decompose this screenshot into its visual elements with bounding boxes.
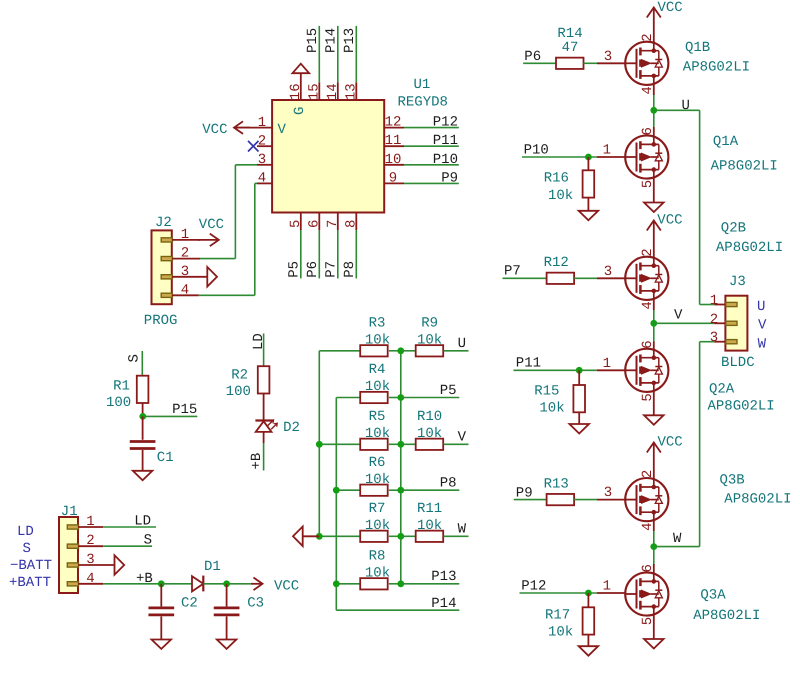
Q3B pin 4 (source) xyxy=(653,521,655,531)
Q1A gate pin 1 xyxy=(597,156,626,158)
svg-text:V: V xyxy=(674,308,683,324)
resistor R17 xyxy=(587,593,589,607)
svg-text:C1: C1 xyxy=(157,450,174,466)
svg-text:P7: P7 xyxy=(323,261,339,278)
svg-text:10k: 10k xyxy=(365,518,390,534)
resistor R16 xyxy=(587,157,589,170)
svg-text:J1: J1 xyxy=(61,504,78,520)
wire bus to R10 xyxy=(401,443,416,445)
resistor R6 xyxy=(360,485,388,496)
svg-text:11: 11 xyxy=(385,133,402,149)
svg-text:6: 6 xyxy=(640,564,656,572)
svg-text:C2: C2 xyxy=(181,596,198,612)
svg-text:U: U xyxy=(682,98,690,114)
wire bus to R9 xyxy=(401,350,416,352)
wire net S xyxy=(103,545,152,547)
ground below Q1A xyxy=(653,190,655,203)
J2 pin pad 4 xyxy=(161,293,172,297)
U1 pin 13 xyxy=(355,82,357,100)
junction right-bus row R3 xyxy=(397,347,404,354)
wire D1 to VCC xyxy=(203,583,251,585)
svg-text:10k: 10k xyxy=(417,426,442,442)
svg-text:P14: P14 xyxy=(431,596,456,612)
VCC power symbol above Q1B xyxy=(653,8,655,43)
Q3A pin 5 (source) xyxy=(653,615,655,627)
svg-text:P15: P15 xyxy=(305,28,321,53)
svg-text:6: 6 xyxy=(306,220,322,228)
wire net P8 xyxy=(401,489,460,491)
svg-text:Q3B: Q3B xyxy=(720,473,745,489)
svg-text:AP8G02LI: AP8G02LI xyxy=(683,60,750,76)
wire LD to R2 xyxy=(263,334,265,367)
J2 pin 3 lead xyxy=(172,276,208,278)
transistor Q1A xyxy=(625,135,668,178)
svg-text:Q1A: Q1A xyxy=(713,134,739,150)
junction node gate Q3A xyxy=(585,590,592,597)
svg-text:V: V xyxy=(758,318,767,334)
resistor R5 xyxy=(360,439,388,450)
wire R13 to Q3B gate xyxy=(574,499,597,501)
svg-text:U: U xyxy=(458,336,466,352)
wire to +B xyxy=(263,443,265,471)
svg-text:R3: R3 xyxy=(369,316,386,332)
connector J2 body xyxy=(152,230,172,304)
wire net LD xyxy=(103,526,156,528)
J3 pin 1 lead xyxy=(714,304,725,306)
svg-text:10k: 10k xyxy=(539,400,564,416)
svg-text:5: 5 xyxy=(288,220,304,228)
resistor R14 xyxy=(556,58,584,69)
wire net P15 xyxy=(318,26,320,82)
svg-text:2: 2 xyxy=(640,33,656,41)
Q1B pin 4 (source) xyxy=(653,85,655,95)
ground symbol at J2 pin 3 (pointing right) xyxy=(207,267,217,287)
svg-text:1: 1 xyxy=(258,115,266,131)
wire P6 to R14 xyxy=(523,62,556,64)
J1 pin pad 1 xyxy=(67,525,78,529)
wire R8 to bus xyxy=(389,583,401,585)
resistor R8 xyxy=(360,578,388,589)
svg-text:2: 2 xyxy=(640,248,656,256)
svg-text:10k: 10k xyxy=(365,379,390,395)
svg-text:15: 15 xyxy=(306,83,322,100)
svg-text:S: S xyxy=(144,533,152,549)
svg-text:R6: R6 xyxy=(369,455,386,471)
svg-text:P11: P11 xyxy=(516,356,541,372)
wire net P9 xyxy=(404,182,459,184)
svg-text:P13: P13 xyxy=(342,28,358,53)
svg-text:P8: P8 xyxy=(342,261,358,278)
svg-text:1: 1 xyxy=(710,293,718,309)
svg-text:10k: 10k xyxy=(548,625,573,641)
svg-text:R15: R15 xyxy=(534,383,559,399)
svg-text:VCC: VCC xyxy=(199,217,224,233)
junction right-bus row R6 xyxy=(397,487,404,494)
wire J3 pin1 from U bus xyxy=(700,304,715,306)
svg-text:PROG: PROG xyxy=(144,313,178,329)
VCC power symbol at U1 pin 1 xyxy=(234,127,250,129)
svg-text:10k: 10k xyxy=(548,188,573,204)
svg-text:J3: J3 xyxy=(729,274,746,290)
svg-text:+B: +B xyxy=(249,453,265,470)
Q2A pin 6 (drain) xyxy=(653,342,655,350)
svg-text:P12: P12 xyxy=(521,579,546,595)
J1 pin 3 lead xyxy=(78,564,115,566)
U1 pin 15 xyxy=(318,82,320,100)
svg-text:R4: R4 xyxy=(369,362,386,378)
Q2B gate pin 3 xyxy=(597,277,626,279)
svg-text:D1: D1 xyxy=(204,559,221,575)
U1 pin 6 xyxy=(318,213,320,231)
svg-text:P14: P14 xyxy=(323,28,339,53)
svg-text:10k: 10k xyxy=(365,472,390,488)
svg-text:+B: +B xyxy=(136,571,153,587)
svg-text:3: 3 xyxy=(604,264,612,280)
resistor R11 xyxy=(416,531,444,542)
wire net V xyxy=(444,443,469,445)
ground symbol at J1 pin 3 (pointing right) xyxy=(115,555,125,575)
ground symbol at ladder (pointing left) xyxy=(303,535,320,537)
ground below Q3A xyxy=(653,627,655,639)
wire R7 to bus xyxy=(389,535,401,537)
J2 pin pad 2 xyxy=(161,257,172,261)
svg-text:VCC: VCC xyxy=(274,579,299,595)
U1 pin 2 xyxy=(257,145,272,147)
svg-text:R1: R1 xyxy=(113,379,130,395)
svg-text:P6: P6 xyxy=(524,49,541,65)
svg-text:P5: P5 xyxy=(440,383,457,399)
R1 lead to junction xyxy=(142,403,144,416)
svg-text:14: 14 xyxy=(325,83,341,100)
Q3B gate pin 3 xyxy=(597,499,626,501)
wire net P5 xyxy=(300,230,302,278)
svg-text:10k: 10k xyxy=(365,566,390,582)
wire P7 to R12 xyxy=(503,277,547,279)
svg-text:13: 13 xyxy=(343,83,359,100)
ground below R16 xyxy=(587,198,589,211)
svg-text:AP8G02LI: AP8G02LI xyxy=(693,608,760,624)
wire R5 to bus xyxy=(389,443,401,445)
wire bus GND-left (R3/R5/R7) xyxy=(318,351,320,537)
U1 pin 4 xyxy=(257,182,272,184)
junction right-bus row R4 xyxy=(397,394,404,401)
svg-text:1: 1 xyxy=(603,579,611,595)
svg-text:VCC: VCC xyxy=(658,435,683,451)
resistor R3 xyxy=(360,345,388,356)
J2 pin 4 lead xyxy=(172,294,199,296)
svg-text:C3: C3 xyxy=(247,596,264,612)
svg-text:R2: R2 xyxy=(231,368,248,384)
connector J1 body xyxy=(59,517,78,593)
svg-text:2: 2 xyxy=(640,470,656,478)
U1 pin 14 xyxy=(337,82,339,100)
J3 pin pad 2 xyxy=(726,321,737,325)
Q1B gate pin 3 xyxy=(597,62,626,64)
svg-text:5: 5 xyxy=(640,393,656,401)
wire J2 pin4 to U1 pin4 xyxy=(199,294,255,296)
Q2A pin 5 (source) xyxy=(653,392,655,403)
D2 lead down xyxy=(263,432,265,443)
svg-text:1: 1 xyxy=(603,143,611,159)
wire P11 to Q2A gate xyxy=(514,369,597,371)
svg-text:3: 3 xyxy=(258,152,266,168)
wire Q1B source to U node xyxy=(653,95,655,127)
junction node W xyxy=(650,543,657,550)
svg-text:P5: P5 xyxy=(286,261,302,278)
ground below C2 xyxy=(160,616,162,639)
U1 pin 11 xyxy=(384,145,404,147)
wire bus P14 (R4/R6/R8) xyxy=(335,398,337,611)
junction node U xyxy=(650,107,657,114)
svg-text:R5: R5 xyxy=(369,409,386,425)
svg-text:10: 10 xyxy=(385,152,402,168)
resistor R4 xyxy=(360,392,388,403)
wire bus to R11 xyxy=(401,535,416,537)
svg-text:VCC: VCC xyxy=(657,212,682,228)
svg-text:6: 6 xyxy=(640,340,656,348)
svg-text:P12: P12 xyxy=(433,115,458,131)
svg-text:7: 7 xyxy=(325,220,341,228)
resistor R12 xyxy=(547,273,575,284)
transistor Q1B xyxy=(625,42,668,85)
ground below C1 xyxy=(142,450,144,471)
wire Q2B source to V node xyxy=(653,310,655,342)
J1 pin pad 4 xyxy=(67,582,78,586)
J3 pin 2 lead xyxy=(714,322,725,324)
svg-text:3: 3 xyxy=(604,49,612,65)
svg-text:3: 3 xyxy=(604,485,612,501)
Q3A pin 6 (drain) xyxy=(653,564,655,573)
wire J3 pin3 to W bus xyxy=(700,341,715,343)
junction right-bus row R5 xyxy=(397,441,404,448)
svg-text:10k: 10k xyxy=(417,518,442,534)
capacitor C1 xyxy=(142,416,144,439)
svg-text:P15: P15 xyxy=(172,402,197,418)
svg-text:Q3A: Q3A xyxy=(700,588,726,604)
svg-text:W: W xyxy=(673,531,682,547)
svg-text:W: W xyxy=(758,337,767,353)
svg-text:R11: R11 xyxy=(417,501,442,517)
svg-text:Q1B: Q1B xyxy=(685,40,710,56)
J3 pin 3 lead xyxy=(714,341,725,343)
ground below R15 xyxy=(578,412,580,424)
U1 pin 1 xyxy=(234,127,272,129)
J2 pin pad 1 xyxy=(161,238,172,242)
svg-text:R16: R16 xyxy=(544,170,569,186)
resistor R2 xyxy=(258,366,270,393)
svg-text:LD: LD xyxy=(17,524,34,540)
svg-text:P6: P6 xyxy=(305,261,321,278)
wire net P12 xyxy=(404,127,459,129)
Q2B pin 4 (source) xyxy=(653,300,655,310)
wire net P6 xyxy=(318,230,320,278)
svg-text:10k: 10k xyxy=(417,333,442,349)
svg-text:16: 16 xyxy=(288,83,304,100)
svg-text:R17: R17 xyxy=(545,607,570,623)
connector J3 body xyxy=(725,296,747,351)
svg-text:P10: P10 xyxy=(433,152,458,168)
svg-text:V: V xyxy=(278,122,287,138)
Q1A pin 5 (source) xyxy=(653,178,655,190)
transistor Q3A xyxy=(625,572,668,615)
svg-text:R9: R9 xyxy=(421,316,438,332)
junction right-bus row R7 xyxy=(397,533,404,540)
svg-text:P11: P11 xyxy=(433,133,458,149)
wire S to R1 xyxy=(141,351,143,376)
U1 pin 10 xyxy=(384,164,404,166)
junction node VCC at C3 xyxy=(223,580,230,587)
svg-text:J2: J2 xyxy=(155,215,172,231)
svg-text:AP8G02LI: AP8G02LI xyxy=(716,240,783,256)
wire net P7 xyxy=(337,230,339,278)
junction bus-B R6 xyxy=(333,487,340,494)
svg-text:VCC: VCC xyxy=(202,122,227,138)
svg-text:AP8G02LI: AP8G02LI xyxy=(724,492,791,508)
svg-text:W: W xyxy=(458,522,467,538)
svg-text:R10: R10 xyxy=(417,409,442,425)
resistor R15 xyxy=(578,370,580,385)
svg-text:1: 1 xyxy=(603,356,611,372)
junction node gate Q2A xyxy=(576,367,583,374)
U1 pin 16 xyxy=(300,73,302,100)
wire +B to D1 xyxy=(161,583,192,585)
svg-text:D2: D2 xyxy=(283,420,300,436)
U1 pin 5 xyxy=(300,213,302,231)
Q2A gate pin 1 xyxy=(597,369,626,371)
wire net P13 xyxy=(401,583,460,585)
svg-text:P8: P8 xyxy=(440,476,457,492)
wire P10 to Q1A gate xyxy=(522,156,597,158)
J3 pin pad 3 xyxy=(726,340,737,344)
svg-text:100: 100 xyxy=(106,395,131,411)
diode D1 xyxy=(192,576,203,591)
wire R3 to bus xyxy=(389,350,401,352)
svg-text:100: 100 xyxy=(226,384,251,400)
resistor R9 xyxy=(416,345,444,356)
resistor R13 xyxy=(547,494,575,505)
junction node +B at C2 xyxy=(158,580,165,587)
svg-text:9: 9 xyxy=(389,170,397,186)
R2 lead to D2 xyxy=(263,394,265,421)
resistor R7 xyxy=(360,531,388,542)
J3 pin pad 1 xyxy=(726,302,737,306)
svg-text:6: 6 xyxy=(640,127,656,135)
J1 pin pad 3 xyxy=(67,563,78,567)
svg-text:S: S xyxy=(23,541,31,557)
wire J2 pin2 to U1 pin3 xyxy=(200,258,235,260)
svg-text:2: 2 xyxy=(710,312,718,328)
VCC power symbol above Q2B xyxy=(653,221,655,258)
wire R6 to bus xyxy=(389,489,401,491)
wire net P10 xyxy=(404,164,459,166)
wire R4 to bus xyxy=(389,397,401,399)
svg-text:4: 4 xyxy=(640,301,656,309)
svg-text:4: 4 xyxy=(640,522,656,530)
wire net U xyxy=(444,350,469,352)
transistor Q3B xyxy=(625,478,668,521)
junction node gate Q1A xyxy=(585,154,592,161)
wire net P8 xyxy=(355,230,357,278)
U1 pin 12 xyxy=(384,127,404,129)
svg-text:Q2B: Q2B xyxy=(721,221,746,237)
svg-text:R8: R8 xyxy=(369,549,386,565)
svg-text:10k: 10k xyxy=(365,333,390,349)
svg-text:P13: P13 xyxy=(431,569,456,585)
wire Q3B source to W node xyxy=(653,531,655,564)
LED D2 xyxy=(255,419,271,421)
svg-text:5: 5 xyxy=(640,617,656,625)
svg-text:AP8G02LI: AP8G02LI xyxy=(711,159,778,175)
wire R12 to Q2B gate xyxy=(574,277,597,279)
IC U1 REGYD8 body xyxy=(272,100,384,213)
Q3A gate pin 1 xyxy=(597,592,626,594)
ground below R17 xyxy=(587,635,589,647)
svg-text:3: 3 xyxy=(710,330,718,346)
svg-text:AP8G02LI: AP8G02LI xyxy=(708,399,775,415)
wire P9 to R13 xyxy=(514,499,547,501)
no-connect X at U1 pin 2 xyxy=(248,141,259,152)
J2 pin pad 3 xyxy=(161,275,172,279)
wire R14 to Q1B gate xyxy=(584,62,598,64)
junction bus-A R5 xyxy=(316,441,323,448)
svg-text:+BATT: +BATT xyxy=(9,575,51,591)
resistor R1 xyxy=(137,376,149,403)
junction bus-A R7 xyxy=(316,533,323,540)
J1 pin pad 2 xyxy=(67,544,78,548)
J2 pin 1 lead xyxy=(172,239,200,241)
wire net P11 xyxy=(404,145,459,147)
U1 pin 3 xyxy=(257,164,272,166)
svg-text:P9: P9 xyxy=(441,170,458,186)
J1 pin 1 lead xyxy=(78,526,103,528)
svg-text:LD: LD xyxy=(134,514,151,530)
U1 pin 9 xyxy=(384,182,404,184)
svg-text:−BATT: −BATT xyxy=(10,558,52,574)
svg-text:V: V xyxy=(458,430,467,446)
svg-text:47: 47 xyxy=(562,40,579,56)
svg-text:P7: P7 xyxy=(504,264,521,280)
svg-text:R7: R7 xyxy=(369,501,386,517)
svg-text:U: U xyxy=(757,299,765,315)
Q1A pin 6 (drain) xyxy=(653,127,655,136)
svg-text:12: 12 xyxy=(385,115,402,131)
svg-text:5: 5 xyxy=(640,180,656,188)
wire net P13 xyxy=(355,26,357,82)
svg-text:G: G xyxy=(292,107,308,115)
capacitor C2 xyxy=(160,584,162,607)
wire net P14 xyxy=(337,26,339,82)
wire right bus of ladder xyxy=(400,351,402,584)
svg-text:REGYD8: REGYD8 xyxy=(398,95,448,111)
junction bus-B R8 xyxy=(333,580,340,587)
J2 pin 2 lead xyxy=(172,258,200,260)
svg-text:10k: 10k xyxy=(365,426,390,442)
wire node W to J3 bus xyxy=(654,546,700,548)
svg-text:BLDC: BLDC xyxy=(721,355,755,371)
wire net +B xyxy=(103,583,161,585)
svg-text:U1: U1 xyxy=(414,77,431,93)
junction node P15 xyxy=(139,413,146,420)
junction right-bus row R8 xyxy=(397,580,404,587)
ground below Q2A xyxy=(653,403,655,415)
svg-text:R12: R12 xyxy=(544,255,569,271)
J1 pin 2 lead xyxy=(78,545,103,547)
wire node U to J3 bus xyxy=(654,109,700,111)
svg-text:4: 4 xyxy=(640,86,656,94)
U1 pin 7 xyxy=(337,213,339,231)
capacitor C3 xyxy=(226,584,228,607)
VCC power symbol at J2 pin 1 xyxy=(198,239,219,241)
